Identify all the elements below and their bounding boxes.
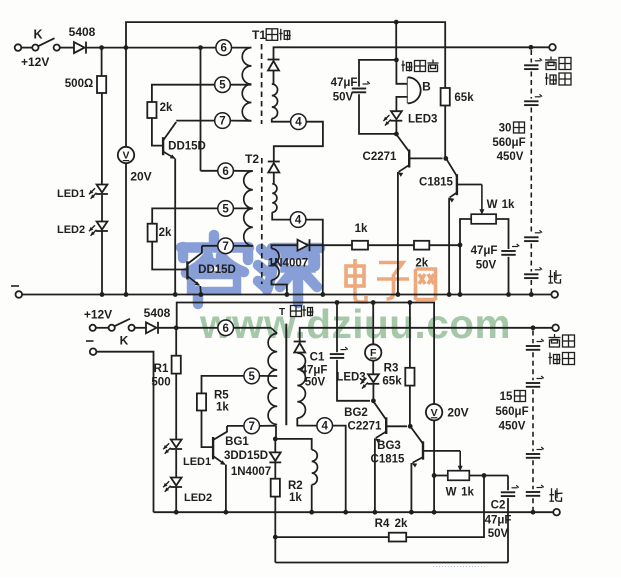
resistor 500 ohm xyxy=(101,48,103,76)
potentiometer W 1k (top) xyxy=(471,214,496,224)
wire R4 to pot right xyxy=(406,476,484,538)
wire R5 hanger / pin5 line (bottom) xyxy=(202,376,244,394)
svg-text:K: K xyxy=(33,28,42,42)
svg-text:1k: 1k xyxy=(216,401,229,413)
svg-text:LED2: LED2 xyxy=(184,492,212,504)
wire LED1 to LED2 xyxy=(101,195,103,221)
wire 2k no.1 hanger / T1 pin5 line xyxy=(152,85,215,102)
switch K (top) xyxy=(32,45,38,51)
wire +12V distribution rail (bottom) xyxy=(177,303,434,405)
pin 6 of T1 xyxy=(216,40,232,56)
wire diode to junction xyxy=(158,327,176,329)
junction pot right / R4 xyxy=(482,473,487,478)
terminal ground (bottom) xyxy=(553,509,560,516)
junction dots on bottom ground bus xyxy=(174,510,179,515)
wire R5 to BG1 base xyxy=(202,411,213,448)
svg-text:W: W xyxy=(487,199,498,211)
svg-text:50V: 50V xyxy=(305,377,326,389)
svg-text:1k: 1k xyxy=(502,199,515,211)
capacitor 47uF 50V (top output) xyxy=(501,250,515,252)
wire buzzer branch from top bus xyxy=(395,22,397,60)
svg-text:50V: 50V xyxy=(488,528,509,540)
wire BG3 emitter to ground bus xyxy=(410,463,412,512)
svg-text:C2271: C2271 xyxy=(363,151,397,163)
diode 5408 (bottom) xyxy=(146,322,157,333)
svg-text:R2: R2 xyxy=(288,480,303,492)
transformer T2 primary winding xyxy=(244,171,253,246)
wire T2 pin7 line xyxy=(202,245,218,247)
svg-text:V: V xyxy=(431,407,438,419)
pin 4 of T1 xyxy=(291,114,307,130)
svg-text:R5: R5 xyxy=(214,390,229,402)
svg-text:30: 30 xyxy=(499,123,512,135)
svg-text:2k: 2k xyxy=(160,102,173,114)
wire HV line left corner (bottom) xyxy=(300,328,553,342)
svg-text:4: 4 xyxy=(295,215,302,227)
svg-text:B: B xyxy=(422,80,431,94)
pin 7 of T1 xyxy=(215,113,231,129)
capacitor C2 47uF 50V xyxy=(501,491,515,493)
resistor 65k (top) xyxy=(441,88,450,106)
svg-text:15: 15 xyxy=(500,391,513,403)
svg-text:W: W xyxy=(446,487,457,499)
junction C1 tap xyxy=(335,300,340,305)
wire C2 bottom to lower rail xyxy=(507,498,509,562)
transistor DD15D no.1 xyxy=(162,137,164,155)
wire C1 branch (bottom) xyxy=(336,303,338,353)
potentiometer W 1k (bottom) xyxy=(448,471,470,481)
terminal +12V input (top) xyxy=(15,44,22,51)
junction BG2 collector node xyxy=(371,398,376,403)
svg-text:R4: R4 xyxy=(375,518,390,530)
wire pin4 to ground bus (bottom) xyxy=(333,426,346,513)
minus mark (top left) xyxy=(11,285,19,287)
junction buzzer/cap node xyxy=(394,58,399,63)
svg-text:F: F xyxy=(370,347,377,359)
svg-text:LED3: LED3 xyxy=(408,114,437,126)
svg-text:BG3: BG3 xyxy=(377,440,401,452)
svg-text:LED1: LED1 xyxy=(57,188,85,200)
wire T1 rectifier top corner xyxy=(274,47,550,59)
wire 2k no.2 hanger / T2 pin5 line xyxy=(152,208,218,223)
junction F-meter tap xyxy=(371,300,376,305)
label 地 (bottom) xyxy=(551,488,553,501)
svg-text:5408: 5408 xyxy=(144,306,171,320)
svg-text:65k: 65k xyxy=(454,92,474,104)
junction LED3 bottom xyxy=(394,132,399,137)
capacitor 47uF 50V (top left of buzzer) xyxy=(352,88,366,90)
buzzer B xyxy=(407,77,409,103)
junction R3 / BG3 node xyxy=(408,424,413,429)
svg-text:1k: 1k xyxy=(461,487,474,499)
svg-text:65k: 65k xyxy=(382,375,402,387)
bottom transformer core xyxy=(285,324,287,426)
wire DD15D1 emitter to ground bus xyxy=(174,159,176,295)
wire BG3 base side to pot wiper (bottom) xyxy=(423,450,460,452)
pin 5 of T2 xyxy=(218,201,234,217)
svg-text:47μF: 47μF xyxy=(471,245,498,257)
wire main +12V line to transformer T1 pin 6 xyxy=(86,47,216,49)
svg-text:R1: R1 xyxy=(154,363,169,375)
svg-text:6: 6 xyxy=(222,166,228,178)
pin 7 of T2 xyxy=(218,238,234,254)
wire BG2 base to R3 node xyxy=(386,425,407,427)
wire C2271 emitter to ground bus xyxy=(397,172,399,295)
wire DD15D1 collector to T1 pin7 line xyxy=(176,120,215,122)
wire LED3 to BG2 node xyxy=(372,384,374,401)
junction pot left (bottom) xyxy=(432,473,437,478)
transistor BG2 C2271 xyxy=(373,401,386,419)
svg-text:6: 6 xyxy=(222,323,228,335)
wire top +12V bus xyxy=(126,22,445,88)
resistor R3 65k xyxy=(409,303,411,368)
wire BG2 emitter to ground bus xyxy=(374,438,376,512)
svg-text:5408: 5408 xyxy=(69,25,96,39)
diode T2 rectifier xyxy=(268,161,280,163)
svg-text:5: 5 xyxy=(248,371,255,383)
transistor DD15D no.2 xyxy=(186,261,188,279)
terminal HV output (bottom) xyxy=(552,325,559,332)
junction HV cap chain tap (top) xyxy=(529,45,534,50)
label 输出 (top) xyxy=(546,73,548,85)
label 高压 (top) xyxy=(550,57,552,60)
svg-text:7: 7 xyxy=(248,421,254,433)
LED LED1 (top) xyxy=(97,185,108,193)
pin 6 of T2 xyxy=(218,163,234,179)
terminal ground left (top) xyxy=(15,291,22,298)
junction 65k / C1815 base xyxy=(443,156,448,161)
label 高压 (bottom) xyxy=(554,334,556,337)
transformer T2 HV secondary winding xyxy=(272,184,277,213)
bottom transformer primary winding xyxy=(268,334,277,425)
ground bus (bottom circuit) xyxy=(154,511,554,513)
wire BG1 emitter to ground bus xyxy=(225,465,227,513)
svg-text:7: 7 xyxy=(219,116,225,128)
wire diode to HV secondary (bottom) xyxy=(298,353,300,354)
svg-text:T1: T1 xyxy=(252,28,266,42)
wire minus terminal to ground bus (left side) xyxy=(96,352,153,513)
transformer T2 core xyxy=(261,158,263,284)
resistor R1 500 (bottom) xyxy=(175,328,177,356)
wire 65k to C1815 base node xyxy=(444,106,446,159)
wire T2 LV top to 1N4007 xyxy=(272,245,298,248)
wire output cap to ground bus xyxy=(508,257,510,295)
svg-text:C1815: C1815 xyxy=(371,454,405,466)
resistor 2k no.1 xyxy=(147,102,156,118)
wire T2 feed vertical xyxy=(200,48,202,171)
wire pot left lead to V line xyxy=(434,475,448,477)
resistor 1k (top) xyxy=(352,241,368,250)
svg-text:BG1: BG1 xyxy=(225,436,249,448)
svg-text:47μF: 47μF xyxy=(331,77,358,89)
svg-text:2k: 2k xyxy=(415,258,428,270)
wire R3 to BG3 node xyxy=(409,386,411,427)
svg-text:LED2: LED2 xyxy=(57,224,85,236)
svg-text:LED1: LED1 xyxy=(183,456,211,468)
wire T2 pin4 to ground bus xyxy=(306,220,323,295)
LED LED3 (top) xyxy=(391,111,402,119)
junction 500ohm tap xyxy=(99,45,104,50)
wire C2 top xyxy=(507,476,509,491)
wire pot right lead to C2 node xyxy=(469,475,508,477)
svg-text:20V: 20V xyxy=(447,406,468,420)
ground bus (top circuit) xyxy=(22,294,551,296)
svg-text:560μF: 560μF xyxy=(495,406,528,418)
junction T2 feed tap xyxy=(198,45,203,50)
wire LED2 to ground bus (bottom) xyxy=(175,488,177,513)
wire pot right lead to output cap xyxy=(496,219,508,249)
wire R1 to LED1 (bottom) xyxy=(175,374,177,439)
label 蜂鸣器 xyxy=(402,61,404,72)
wire T2 diode to HV secondary xyxy=(273,173,275,184)
wire cap to LED3 bottom node xyxy=(359,94,396,134)
wire C1815 base side to pot wiper xyxy=(457,184,482,186)
capacitor C1 47uF 50V xyxy=(330,353,344,355)
pin 5 of T1 xyxy=(215,77,231,93)
junction HV line cap chain tap (bottom) xyxy=(531,325,536,330)
pin 6 of bottom transformer xyxy=(218,320,234,336)
voltmeter V 20V (top) xyxy=(125,48,127,147)
svg-text:C1815: C1815 xyxy=(419,177,453,189)
svg-text:7: 7 xyxy=(222,241,228,253)
LED LED1 (bottom) xyxy=(171,440,182,448)
pin 4 of bottom transformer xyxy=(317,418,333,434)
wire R4 rail xyxy=(275,536,389,538)
transistor BG1 3DD15D xyxy=(212,437,214,459)
wire diode to T1 secondary xyxy=(273,71,275,85)
svg-text:47μF: 47μF xyxy=(301,364,328,376)
frequency meter F (bottom) xyxy=(372,303,374,345)
junction buzzer branch on top bus xyxy=(394,20,399,25)
junction +12V node (bottom) xyxy=(174,325,179,330)
pin 7 of bottom transformer xyxy=(244,418,260,434)
svg-text:50V: 50V xyxy=(333,92,354,104)
junction dots on top ground bus xyxy=(100,292,105,297)
svg-text:K: K xyxy=(120,333,129,347)
diode T1 secondary rectifier xyxy=(268,59,280,61)
junction 1N4007 node xyxy=(273,437,278,442)
wire BG1 collector to pin7 line xyxy=(227,425,244,427)
watermark pink characters 电子网 xyxy=(346,259,436,302)
svg-text:1N4007: 1N4007 xyxy=(268,258,308,270)
svg-text:BG2: BG2 xyxy=(344,407,368,419)
wire lower rail to C2 bottom xyxy=(275,562,508,564)
svg-text:6: 6 xyxy=(220,43,226,55)
svg-text:5: 5 xyxy=(219,80,226,92)
wire R2 through bus to lower rails xyxy=(274,497,276,563)
svg-text:C2271: C2271 xyxy=(348,421,382,433)
wire 2k to DD15D base xyxy=(152,118,162,146)
transistor C1815 (top) xyxy=(447,159,457,176)
wire LED1 to LED2 (bottom) xyxy=(175,450,177,477)
svg-text:2k: 2k xyxy=(159,227,172,239)
pin 4 of T2 xyxy=(290,212,306,228)
svg-text:2k: 2k xyxy=(395,518,408,530)
wire C2271 base to 65k node xyxy=(409,157,442,159)
resistor 2k (top right) xyxy=(414,241,429,250)
wire buzzer bottom lead to LED3 xyxy=(396,97,407,111)
LED LED3 (bottom) xyxy=(368,374,379,382)
wire T2 HV secondary to pin4 xyxy=(272,212,290,219)
watermark big blue characters 容源 xyxy=(181,235,320,304)
svg-text:1k: 1k xyxy=(355,223,368,235)
terminal HV output (top) xyxy=(549,44,556,51)
junction R3 tap xyxy=(408,300,413,305)
svg-text:560μF: 560μF xyxy=(492,137,525,149)
pin 5 of bottom transformer xyxy=(244,368,260,384)
wire switch to diode xyxy=(60,47,74,49)
wire T2 pin6 line xyxy=(201,170,218,172)
svg-text:50V: 50V xyxy=(476,260,497,272)
wire primary bottom to 1N4007 node xyxy=(275,426,277,439)
switch K (bottom) xyxy=(90,325,96,331)
svg-text:+12V: +12V xyxy=(21,55,49,69)
terminal minus (bottom) xyxy=(90,348,97,355)
svg-text:LED3: LED3 xyxy=(336,372,365,384)
transistor BG3 C1815 xyxy=(411,427,423,444)
diode bottom transformer rectifier xyxy=(294,341,306,343)
svg-text:1k: 1k xyxy=(289,492,302,504)
diode 1N4007 (top) xyxy=(298,240,309,251)
label 输出 (bottom) xyxy=(549,353,551,365)
diode 1N4007 (bottom) xyxy=(274,439,276,453)
wire LV winding to ground bus xyxy=(311,485,313,513)
label 地 (top) xyxy=(550,270,552,283)
voltmeter V 20V (bottom) xyxy=(426,404,442,420)
wire 1N4007 to 1k resistor xyxy=(310,244,353,246)
svg-text:R3: R3 xyxy=(384,363,399,375)
wire C1815 emitter to ground bus xyxy=(448,198,450,295)
resistor R4 2k xyxy=(389,533,406,542)
svg-text:www.dziuu.com: www.dziuu.com xyxy=(199,301,511,347)
transformer T1 core xyxy=(261,44,263,124)
wire 500ohm to LED1 xyxy=(101,93,103,184)
resistor 2k no.2 xyxy=(148,224,157,242)
transistor C2271 (top) xyxy=(396,135,409,152)
svg-text:500Ω: 500Ω xyxy=(65,78,93,90)
wire terminal to switch xyxy=(21,47,32,49)
svg-text:T: T xyxy=(279,307,285,318)
wire 2k to pot-left vertical xyxy=(429,244,460,246)
svg-text:3DD15D: 3DD15D xyxy=(224,450,268,462)
minus mark (bottom) xyxy=(86,340,94,342)
resistor R2 1k xyxy=(271,479,280,497)
wire C1 to LED3 node (bottom) xyxy=(337,360,370,401)
svg-text:C1: C1 xyxy=(310,351,325,363)
wire T1 secondary to pin 4 xyxy=(272,119,291,122)
diode 5408 (top) xyxy=(74,42,85,53)
wire to filter cap 47uF xyxy=(359,60,396,87)
wire T1 pin4 to T2 rectifier xyxy=(274,122,323,162)
LED LED2 (top) xyxy=(97,222,108,230)
svg-text:4: 4 xyxy=(321,421,328,433)
wire 1N4007 to R2 xyxy=(274,463,276,479)
svg-text:C2: C2 xyxy=(491,500,506,512)
transformer T2 LV winding xyxy=(272,249,280,281)
bottom transformer LV winding xyxy=(312,450,318,485)
svg-text:V: V xyxy=(122,150,129,162)
transformer T1 primary winding xyxy=(242,48,251,121)
svg-text:DD15D: DD15D xyxy=(198,264,236,276)
terminal ground right (top) xyxy=(551,291,558,298)
wire LED3 to C2271 collector node xyxy=(395,121,397,134)
svg-text:450V: 450V xyxy=(497,151,524,163)
transformer T1 secondary winding xyxy=(272,84,278,119)
junction feedback to pot-left xyxy=(458,243,463,248)
wire LED2 to ground bus xyxy=(101,232,103,295)
svg-text:450V: 450V xyxy=(499,421,526,433)
wire T2 LV bottom to ground bus xyxy=(272,280,287,295)
wire 2k2 to DD15D2 base xyxy=(152,242,186,270)
capacitor chain 30x 560uF (top) with dashed link xyxy=(530,50,532,63)
svg-text:20V: 20V xyxy=(130,170,151,184)
svg-text:1N4007: 1N4007 xyxy=(231,466,271,478)
LED LED2 (bottom) xyxy=(171,478,182,486)
svg-text:………………: ……………… xyxy=(432,559,486,569)
svg-text:T2: T2 xyxy=(245,152,259,166)
bottom transformer HV secondary winding xyxy=(297,353,305,418)
junction R4 rail xyxy=(273,535,278,540)
wire pot left lead to feedback node and ground xyxy=(460,219,471,295)
svg-text:+12V: +12V xyxy=(84,308,112,322)
junction V-meter tap xyxy=(124,45,129,50)
svg-text:5: 5 xyxy=(222,203,229,215)
capacitor chain 15x 560uF (bottom) xyxy=(532,331,534,344)
wire 1k to 2k (top feedback line) xyxy=(368,244,414,246)
resistor R5 1k xyxy=(197,393,206,410)
svg-text:4: 4 xyxy=(295,117,302,129)
svg-text:500: 500 xyxy=(151,377,170,389)
wire HV secondary to pin4 (bottom) xyxy=(297,418,317,426)
wire +12V node to pin6 (bottom) xyxy=(176,327,218,329)
wire buzzer top lead xyxy=(396,60,407,84)
wire LV winding top hook (bottom) xyxy=(275,439,311,450)
